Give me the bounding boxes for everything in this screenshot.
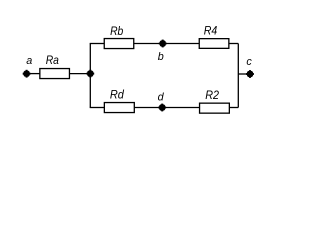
wire bus to Rb [90,43,105,45]
wire Rd to R2 through node d [134,107,199,109]
resistor Rd [104,103,134,113]
node d [158,104,166,112]
svg-text:Rb: Rb [110,24,124,38]
wire Rb to R4 through node b [134,43,199,45]
svg-text:d: d [158,91,165,103]
svg-text:Ra: Ra [46,53,60,67]
resistor Rb [104,39,134,49]
wire bus to Rd [90,107,105,109]
svg-text:b: b [158,51,164,63]
svg-text:a: a [26,55,32,67]
wire R2 to right bus [229,107,238,109]
wire Ra to junction [70,73,91,75]
resistor R4 [199,39,229,49]
svg-text:R4: R4 [204,23,218,37]
wire R4 to right bus [229,43,238,45]
wire stub to node c [238,73,250,75]
node a [23,70,31,78]
wire a to Ra [27,73,40,75]
node c [246,70,254,78]
node b [159,40,167,48]
wire right vertical bus [237,44,239,108]
junction node after Ra [86,70,94,78]
resistor Ra [40,69,70,79]
wire left vertical bus [89,44,91,108]
resistor R2 [200,103,230,113]
svg-text:c: c [246,56,252,68]
svg-text:R2: R2 [205,88,219,102]
svg-text:Rd: Rd [110,88,124,102]
